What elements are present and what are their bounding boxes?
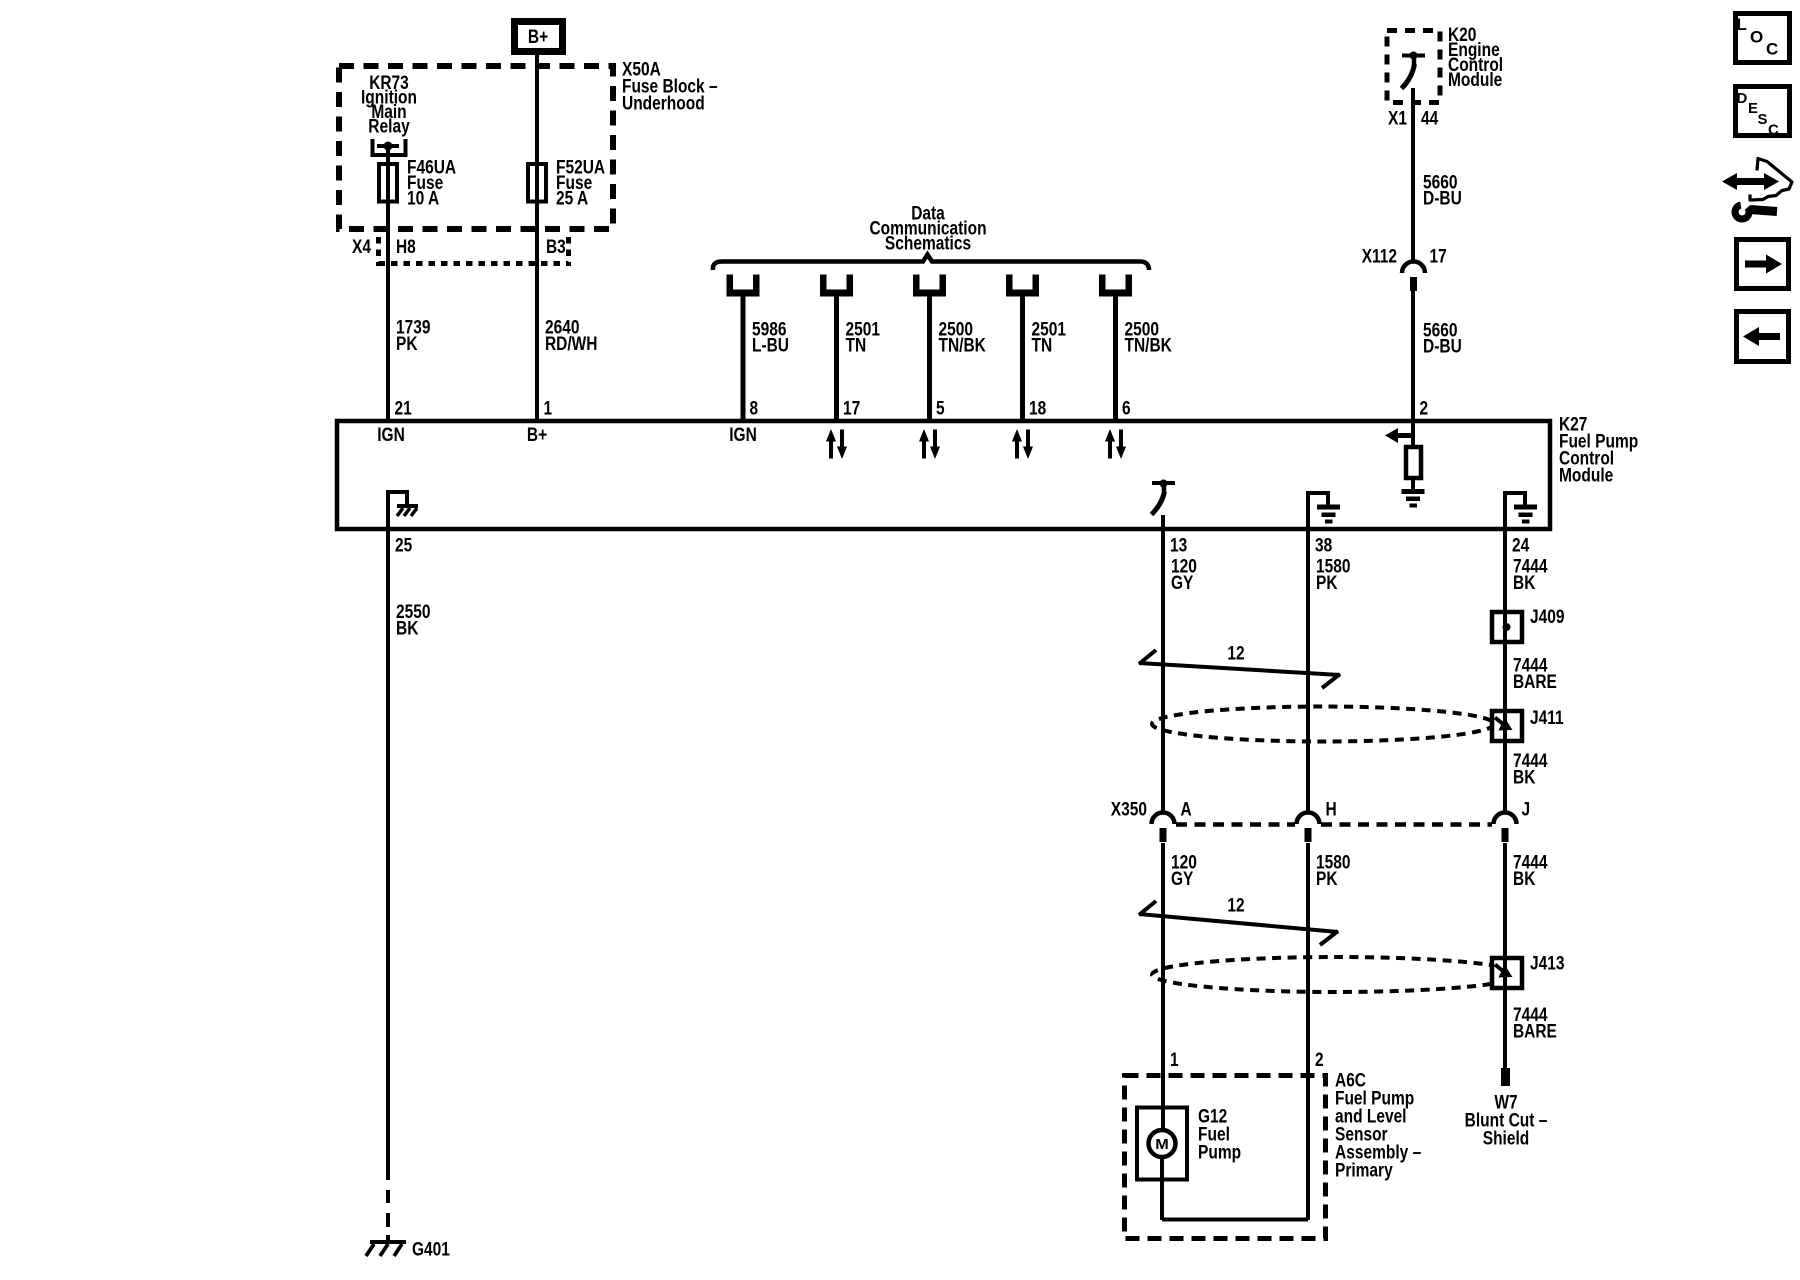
- svg-text:2: 2: [1420, 399, 1429, 420]
- svg-text:J: J: [1522, 800, 1531, 821]
- svg-text:E: E: [1748, 100, 1758, 117]
- svg-text:Shield: Shield: [1483, 1129, 1530, 1150]
- svg-text:A: A: [1181, 800, 1192, 821]
- svg-text:J413: J413: [1530, 954, 1565, 975]
- svg-text:S: S: [1758, 111, 1768, 128]
- svg-text:H: H: [1326, 800, 1337, 821]
- svg-text:B3: B3: [546, 237, 566, 258]
- svg-text:PK: PK: [1316, 869, 1338, 890]
- svg-text:GY: GY: [1171, 869, 1194, 890]
- svg-text:BARE: BARE: [1513, 672, 1557, 693]
- svg-text:B+: B+: [528, 27, 548, 48]
- svg-text:J411: J411: [1530, 708, 1564, 729]
- svg-text:Module: Module: [1448, 70, 1502, 91]
- svg-text:TN: TN: [1032, 336, 1053, 357]
- svg-text:TN: TN: [846, 336, 867, 357]
- svg-text:BK: BK: [396, 619, 419, 640]
- svg-text:24: 24: [1512, 536, 1530, 557]
- svg-text:L-BU: L-BU: [752, 336, 789, 357]
- svg-text:Primary: Primary: [1335, 1161, 1393, 1182]
- svg-text:38: 38: [1315, 536, 1332, 557]
- svg-text:H8: H8: [396, 237, 416, 258]
- svg-text:C: C: [1768, 122, 1779, 139]
- svg-text:G401: G401: [412, 1240, 450, 1261]
- svg-text:TN/BK: TN/BK: [939, 336, 987, 357]
- svg-text:PK: PK: [1316, 573, 1338, 594]
- svg-text:C: C: [1766, 40, 1778, 59]
- svg-text:Relay: Relay: [368, 117, 410, 138]
- svg-text:6: 6: [1122, 399, 1131, 420]
- svg-text:BK: BK: [1513, 573, 1536, 594]
- svg-text:M: M: [1155, 1136, 1169, 1153]
- svg-text:18: 18: [1029, 399, 1046, 420]
- svg-text:X112: X112: [1362, 247, 1397, 268]
- svg-text:Pump: Pump: [1198, 1143, 1241, 1164]
- svg-text:44: 44: [1421, 109, 1439, 130]
- svg-text:8: 8: [750, 399, 759, 420]
- svg-text:BK: BK: [1513, 869, 1536, 890]
- svg-text:J409: J409: [1530, 607, 1565, 628]
- svg-text:BK: BK: [1513, 768, 1536, 789]
- svg-text:10 A: 10 A: [407, 189, 439, 210]
- svg-text:1: 1: [1170, 1050, 1179, 1071]
- svg-text:17: 17: [843, 399, 860, 420]
- svg-text:21: 21: [395, 399, 413, 420]
- svg-text:D-BU: D-BU: [1423, 337, 1462, 358]
- svg-text:5: 5: [936, 399, 945, 420]
- svg-text:12: 12: [1227, 896, 1244, 917]
- svg-text:PK: PK: [396, 334, 418, 355]
- svg-text:17: 17: [1430, 247, 1447, 268]
- svg-text:X350: X350: [1111, 800, 1147, 821]
- svg-text:GY: GY: [1171, 573, 1194, 594]
- svg-text:X4: X4: [352, 237, 371, 258]
- svg-text:13: 13: [1170, 536, 1187, 557]
- svg-text:D-BU: D-BU: [1423, 189, 1462, 210]
- svg-text:Underhood: Underhood: [622, 94, 705, 115]
- svg-text:B+: B+: [527, 425, 547, 446]
- svg-text:O: O: [1750, 28, 1763, 47]
- svg-text:X1: X1: [1388, 109, 1407, 130]
- svg-text:12: 12: [1227, 644, 1244, 665]
- svg-text:25 A: 25 A: [556, 189, 588, 210]
- svg-text:BARE: BARE: [1513, 1022, 1557, 1043]
- svg-text:1: 1: [544, 399, 553, 420]
- svg-text:L: L: [1737, 15, 1747, 34]
- svg-text:IGN: IGN: [377, 425, 405, 446]
- svg-text:Module: Module: [1559, 466, 1613, 487]
- svg-text:2: 2: [1315, 1050, 1324, 1071]
- svg-text:IGN: IGN: [729, 425, 757, 446]
- svg-text:TN/BK: TN/BK: [1125, 336, 1173, 357]
- svg-text:25: 25: [395, 536, 413, 557]
- svg-text:D: D: [1737, 90, 1748, 107]
- svg-text:RD/WH: RD/WH: [545, 334, 598, 355]
